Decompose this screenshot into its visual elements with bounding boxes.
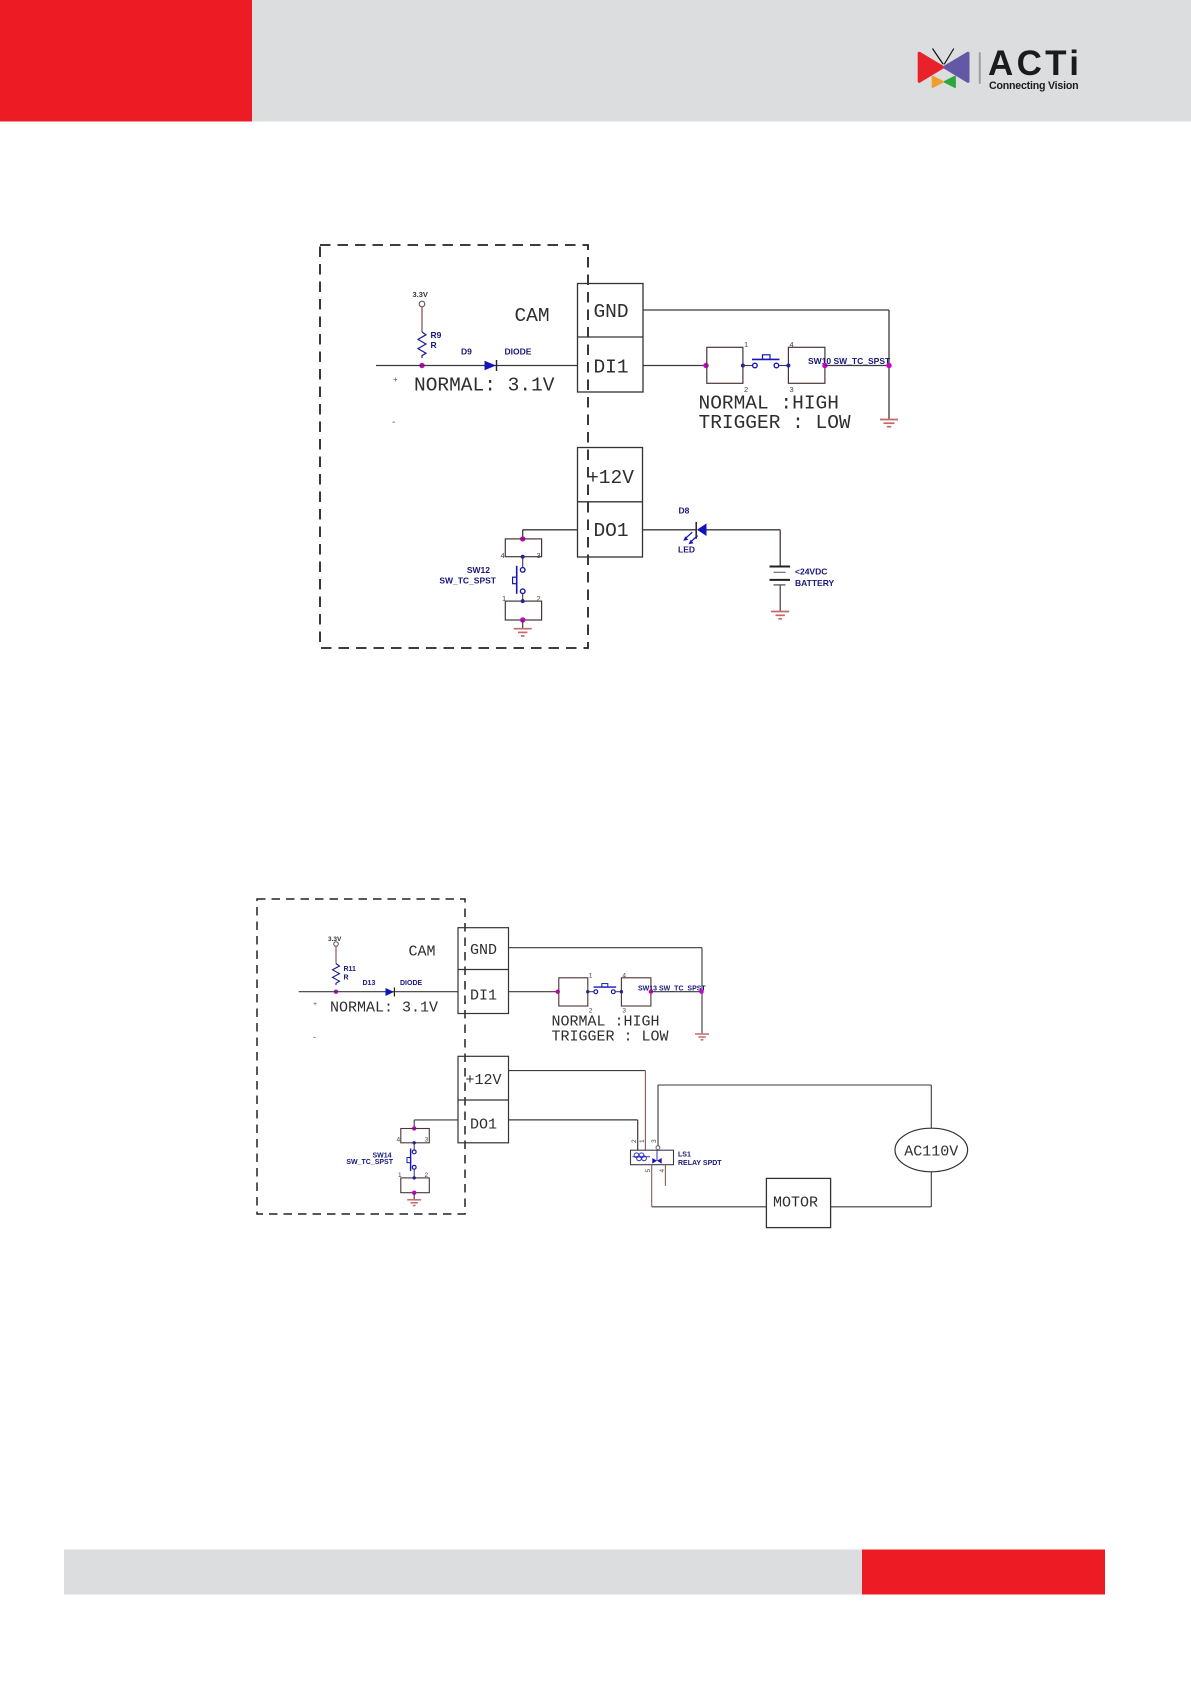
- svg-text:TRIGGER : LOW: TRIGGER : LOW: [552, 1029, 669, 1046]
- svg-text:ACTi: ACTi: [988, 44, 1082, 83]
- svg-text:CAM: CAM: [408, 944, 435, 961]
- svg-text:DO1: DO1: [593, 520, 628, 542]
- svg-text:D13: D13: [363, 980, 376, 987]
- svg-text:GND: GND: [470, 942, 497, 959]
- svg-text:1: 1: [744, 340, 748, 349]
- svg-text:CAM: CAM: [514, 305, 549, 327]
- svg-text:4: 4: [501, 551, 505, 560]
- svg-text:2: 2: [537, 594, 541, 603]
- svg-text:LED: LED: [678, 545, 695, 555]
- svg-text:DIODE: DIODE: [400, 980, 423, 987]
- svg-text:NORMAL: 3.1V: NORMAL: 3.1V: [330, 1000, 438, 1017]
- svg-text:R: R: [431, 340, 437, 350]
- svg-text:1: 1: [589, 973, 593, 980]
- svg-text:4: 4: [397, 1137, 401, 1144]
- svg-text:1: 1: [398, 1172, 402, 1179]
- svg-text:SW10 SW_TC_SPST: SW10 SW_TC_SPST: [808, 356, 891, 366]
- svg-text:SW_TC_SPST: SW_TC_SPST: [439, 576, 496, 586]
- svg-text:5: 5: [645, 1169, 652, 1173]
- svg-text:<24VDC: <24VDC: [795, 567, 827, 577]
- svg-text:LS1: LS1: [678, 1152, 691, 1159]
- svg-text:+12V: +12V: [465, 1072, 501, 1089]
- svg-text:3: 3: [537, 551, 541, 560]
- svg-text:2: 2: [631, 1139, 638, 1143]
- svg-text:Connecting Vision: Connecting Vision: [989, 80, 1078, 92]
- svg-text:DI1: DI1: [593, 357, 628, 379]
- svg-text:3.3V: 3.3V: [413, 290, 428, 299]
- svg-text:2: 2: [425, 1172, 429, 1179]
- svg-text:GND: GND: [593, 301, 628, 323]
- svg-text:BATTERY: BATTERY: [795, 578, 835, 588]
- svg-text:3: 3: [425, 1137, 429, 1144]
- svg-text:4: 4: [622, 973, 626, 980]
- svg-text:DI1: DI1: [470, 988, 497, 1005]
- svg-text:MOTOR: MOTOR: [773, 1195, 818, 1212]
- svg-text:1: 1: [639, 1139, 646, 1143]
- svg-text:TRIGGER : LOW: TRIGGER : LOW: [699, 412, 851, 434]
- svg-text:3: 3: [651, 1139, 658, 1143]
- svg-text:D8: D8: [679, 506, 690, 516]
- svg-text:R: R: [344, 975, 349, 982]
- svg-text:NORMAL: 3.1V: NORMAL: 3.1V: [414, 375, 555, 397]
- svg-text:D9: D9: [461, 347, 472, 357]
- svg-text:-: -: [313, 1032, 316, 1042]
- svg-text:+: +: [313, 1001, 317, 1008]
- svg-text:4: 4: [790, 340, 794, 349]
- svg-text:DO1: DO1: [470, 1117, 497, 1134]
- svg-text:DIODE: DIODE: [505, 347, 532, 357]
- svg-text:RELAY SPDT: RELAY SPDT: [678, 1160, 722, 1167]
- svg-text:SW12: SW12: [467, 565, 490, 575]
- svg-text:1: 1: [502, 594, 506, 603]
- svg-text:R9: R9: [431, 330, 442, 340]
- svg-text:R11: R11: [344, 966, 357, 973]
- svg-text:AC110V: AC110V: [904, 1143, 958, 1160]
- svg-text:SW_TC_SPST: SW_TC_SPST: [346, 1159, 393, 1166]
- svg-text:-: -: [392, 417, 395, 428]
- svg-text:+: +: [393, 375, 398, 384]
- svg-text:+12V: +12V: [587, 467, 634, 489]
